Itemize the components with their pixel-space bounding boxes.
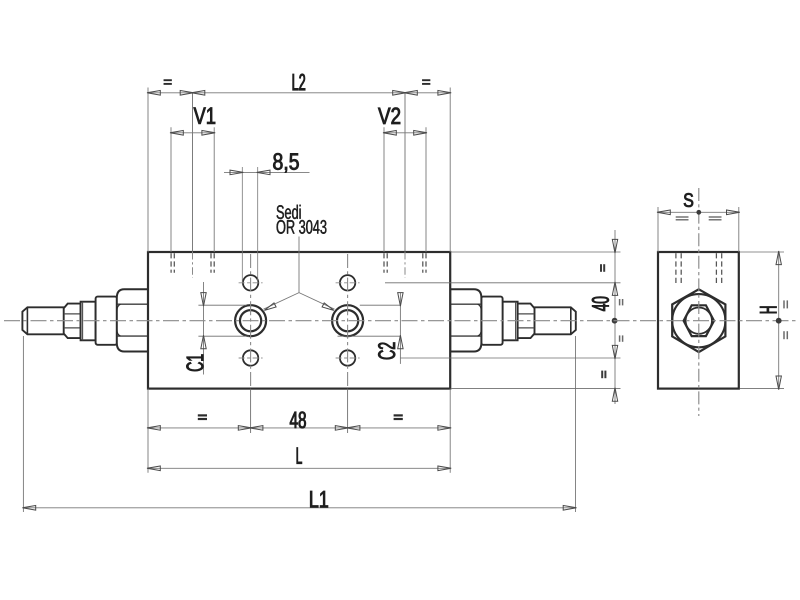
H center dot [776,318,782,324]
H dimension line [778,252,780,389]
C2 dimension line [399,293,401,364]
bottom edge extension to 40 chain [451,388,620,390]
right washer flange [481,297,503,345]
inner hex socket [684,305,714,336]
H extension lines [740,252,784,389]
hex nut chamfer circle [672,294,725,347]
arrow at right edge [438,91,451,96]
row2 extension to 40 chain [400,357,620,359]
left step collar [81,302,96,341]
V1 port centerline [192,93,194,278]
L1 arrows [22,506,576,511]
C2 arrows [398,293,403,349]
label C1 [186,355,203,372]
equals mark bottom-left [198,415,207,419]
right hex cap nut [450,289,481,351]
8,5 dimension line [224,171,310,173]
V1 extension lines [171,127,214,252]
S center dot [696,210,701,215]
bottom left extension line [147,389,149,473]
equals mark bottom-right [394,415,403,419]
V1 dimension line [171,132,214,134]
left hole column centerline [250,254,252,433]
label Sedi [277,205,301,219]
equals mark upper (rotated) [601,264,604,272]
C1 dimension line [203,282,205,375]
40 chain arrows [612,239,617,401]
right step collar [503,302,518,341]
40 chain dimension line [614,230,616,404]
body left edge extension line [147,88,149,253]
hex nut outline [672,289,725,352]
8,5 extension lines [242,167,257,284]
right threaded stem [534,307,576,334]
body right edge extension line [449,88,451,253]
arrows at V1 center [180,91,205,96]
V2 arrows [383,131,427,136]
L1 dimension line [23,507,575,509]
label 40 [592,297,609,311]
top dimension line [148,92,450,94]
L1 right extension line [575,336,577,512]
label S [684,193,693,207]
leader arrowhead left [264,303,276,311]
equals mark top-left [164,80,172,84]
H arrows [776,251,781,390]
leader line to seats [264,237,335,310]
small hole bottom-right [336,350,360,365]
row1 extension to 40 chain [385,282,621,284]
label L2 [293,74,305,90]
arrow at left edge [147,91,160,96]
inner stem circle [686,308,712,334]
label C2 [378,343,395,360]
leader arrowhead right [322,303,334,311]
small hole top-right [336,275,360,290]
label 48 [290,412,306,429]
small hole top-left [239,275,263,290]
side view vertical centerline [698,188,700,416]
L arrows [147,466,451,471]
H symmetry marks [784,300,787,339]
left jam nut [64,304,81,339]
40 chain center dot [612,318,618,324]
main horizontal centerline [4,320,796,322]
S symmetry equals marks [676,217,722,220]
8,5 arrows [230,170,270,175]
top edge extension to 40 chain [451,251,620,253]
left threaded stem [22,307,64,334]
V2 extension lines [384,127,426,252]
label L [297,448,302,464]
C1 arrows [201,293,206,349]
side view body outline [658,252,739,389]
main body outline [148,252,450,389]
seat bore C2 (outer+inner) [332,305,363,336]
S dimension line [658,211,739,213]
right jam nut [518,304,535,339]
C2 tangent extension lines [338,305,401,336]
label OR 3043 [277,220,327,234]
label H [760,307,777,314]
left washer flange [96,297,118,345]
bottom right extension line [449,389,451,473]
L dimension line [148,467,450,469]
small symmetry marks at 40 [620,299,623,342]
arrows at V2 center [393,91,418,96]
label V1 [194,108,216,124]
label 8,5 [273,153,298,172]
S arrows [657,210,740,215]
equals mark top-right [422,80,430,84]
C1 tangent extension lines [198,305,249,336]
label V2 [378,108,400,124]
48 dimension line [148,427,450,429]
V2 hidden thread lines [384,253,426,273]
L1 left extension line [22,336,24,512]
left hex cap nut [117,289,148,351]
side view hidden thread lines [676,253,722,284]
V1 arrows [170,131,215,136]
V2 port centerline [404,93,406,278]
seat bore C1 (outer+inner) [235,305,266,336]
V2 dimension line [384,132,426,134]
equals mark lower (rotated) [602,371,605,379]
right hole column centerline [347,254,349,433]
V1 hidden thread lines [171,253,214,273]
small hole bottom-left [239,350,263,365]
label L1 [310,491,328,507]
48 row arrows [147,426,451,431]
S extension lines [658,207,739,252]
